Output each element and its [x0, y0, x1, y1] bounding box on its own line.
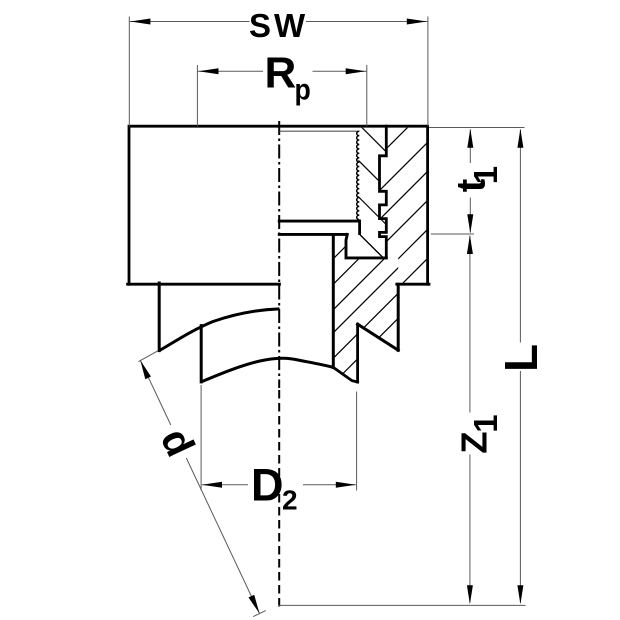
svg-text:SW: SW	[249, 7, 308, 44]
break notch diagonal	[358, 324, 399, 350]
thread profile staircase (major diameter steps)	[380, 126, 387, 258]
L label	[495, 344, 547, 372]
svg-text:1: 1	[467, 166, 504, 184]
L arrows	[517, 129, 523, 148]
dimension Rp: dimension line	[197, 70, 263, 72]
socket bore wall (section)	[332, 235, 335, 368]
dimension SW: extension lines	[128, 17, 130, 127]
D2 arrows	[202, 482, 222, 488]
thread minor diameter lower wall	[358, 220, 361, 235]
dimension D2: extension lines	[200, 385, 202, 491]
hatching region B: thread strip, backslash direction	[0, 0, 620, 495]
Z1 arrows	[467, 235, 473, 254]
socket outer wall (section right)	[397, 284, 400, 350]
Z1 label	[454, 414, 505, 453]
pipe inner wall (view side)	[200, 326, 203, 382]
svg-text:Z: Z	[454, 431, 495, 453]
break notch left wall	[356, 324, 359, 382]
groove cone thin diagonal	[360, 235, 383, 258]
hex body outline	[128, 126, 429, 284]
t1 label	[448, 166, 504, 192]
centerline (dash-dot axis)	[278, 121, 280, 388]
svg-text:R: R	[265, 49, 297, 98]
d extension ticks	[139, 351, 158, 362]
internal shoulder plate (two horizontal lines)	[278, 220, 360, 223]
dimension Z1: dimension line	[469, 236, 471, 413]
dimension L: top reference line	[429, 127, 525, 129]
svg-text:1: 1	[467, 414, 504, 432]
thread bore top line (thin)	[280, 130, 359, 132]
dimension d: oblique dimension line	[140, 361, 170, 426]
t1 arrows	[467, 129, 473, 148]
svg-text:D: D	[251, 460, 284, 511]
lower break jag	[333, 367, 357, 382]
dimension L: dimension line	[519, 130, 521, 343]
pipe upper break curve	[159, 309, 279, 351]
bottom reference line	[279, 604, 526, 606]
t1 reference tick	[431, 233, 474, 235]
dimension SW: dimension line	[129, 21, 249, 23]
Rp arrows	[199, 68, 219, 74]
d arrows	[140, 361, 151, 380]
dimension D2: dimension line	[202, 484, 248, 486]
svg-text:L: L	[495, 344, 547, 372]
dimension t1: dimension line	[469, 130, 471, 164]
pipe outer wall (view side)	[158, 283, 161, 351]
thread crest zigzag line	[357, 131, 360, 219]
thread runout groove outline (hook)	[346, 234, 386, 258]
svg-text:2: 2	[282, 485, 298, 516]
SW arrows	[130, 19, 150, 25]
dimension Rp: extension lines	[196, 65, 198, 126]
svg-text:p: p	[295, 74, 311, 107]
pipe lower break curve	[201, 358, 333, 382]
d label	[152, 421, 204, 463]
